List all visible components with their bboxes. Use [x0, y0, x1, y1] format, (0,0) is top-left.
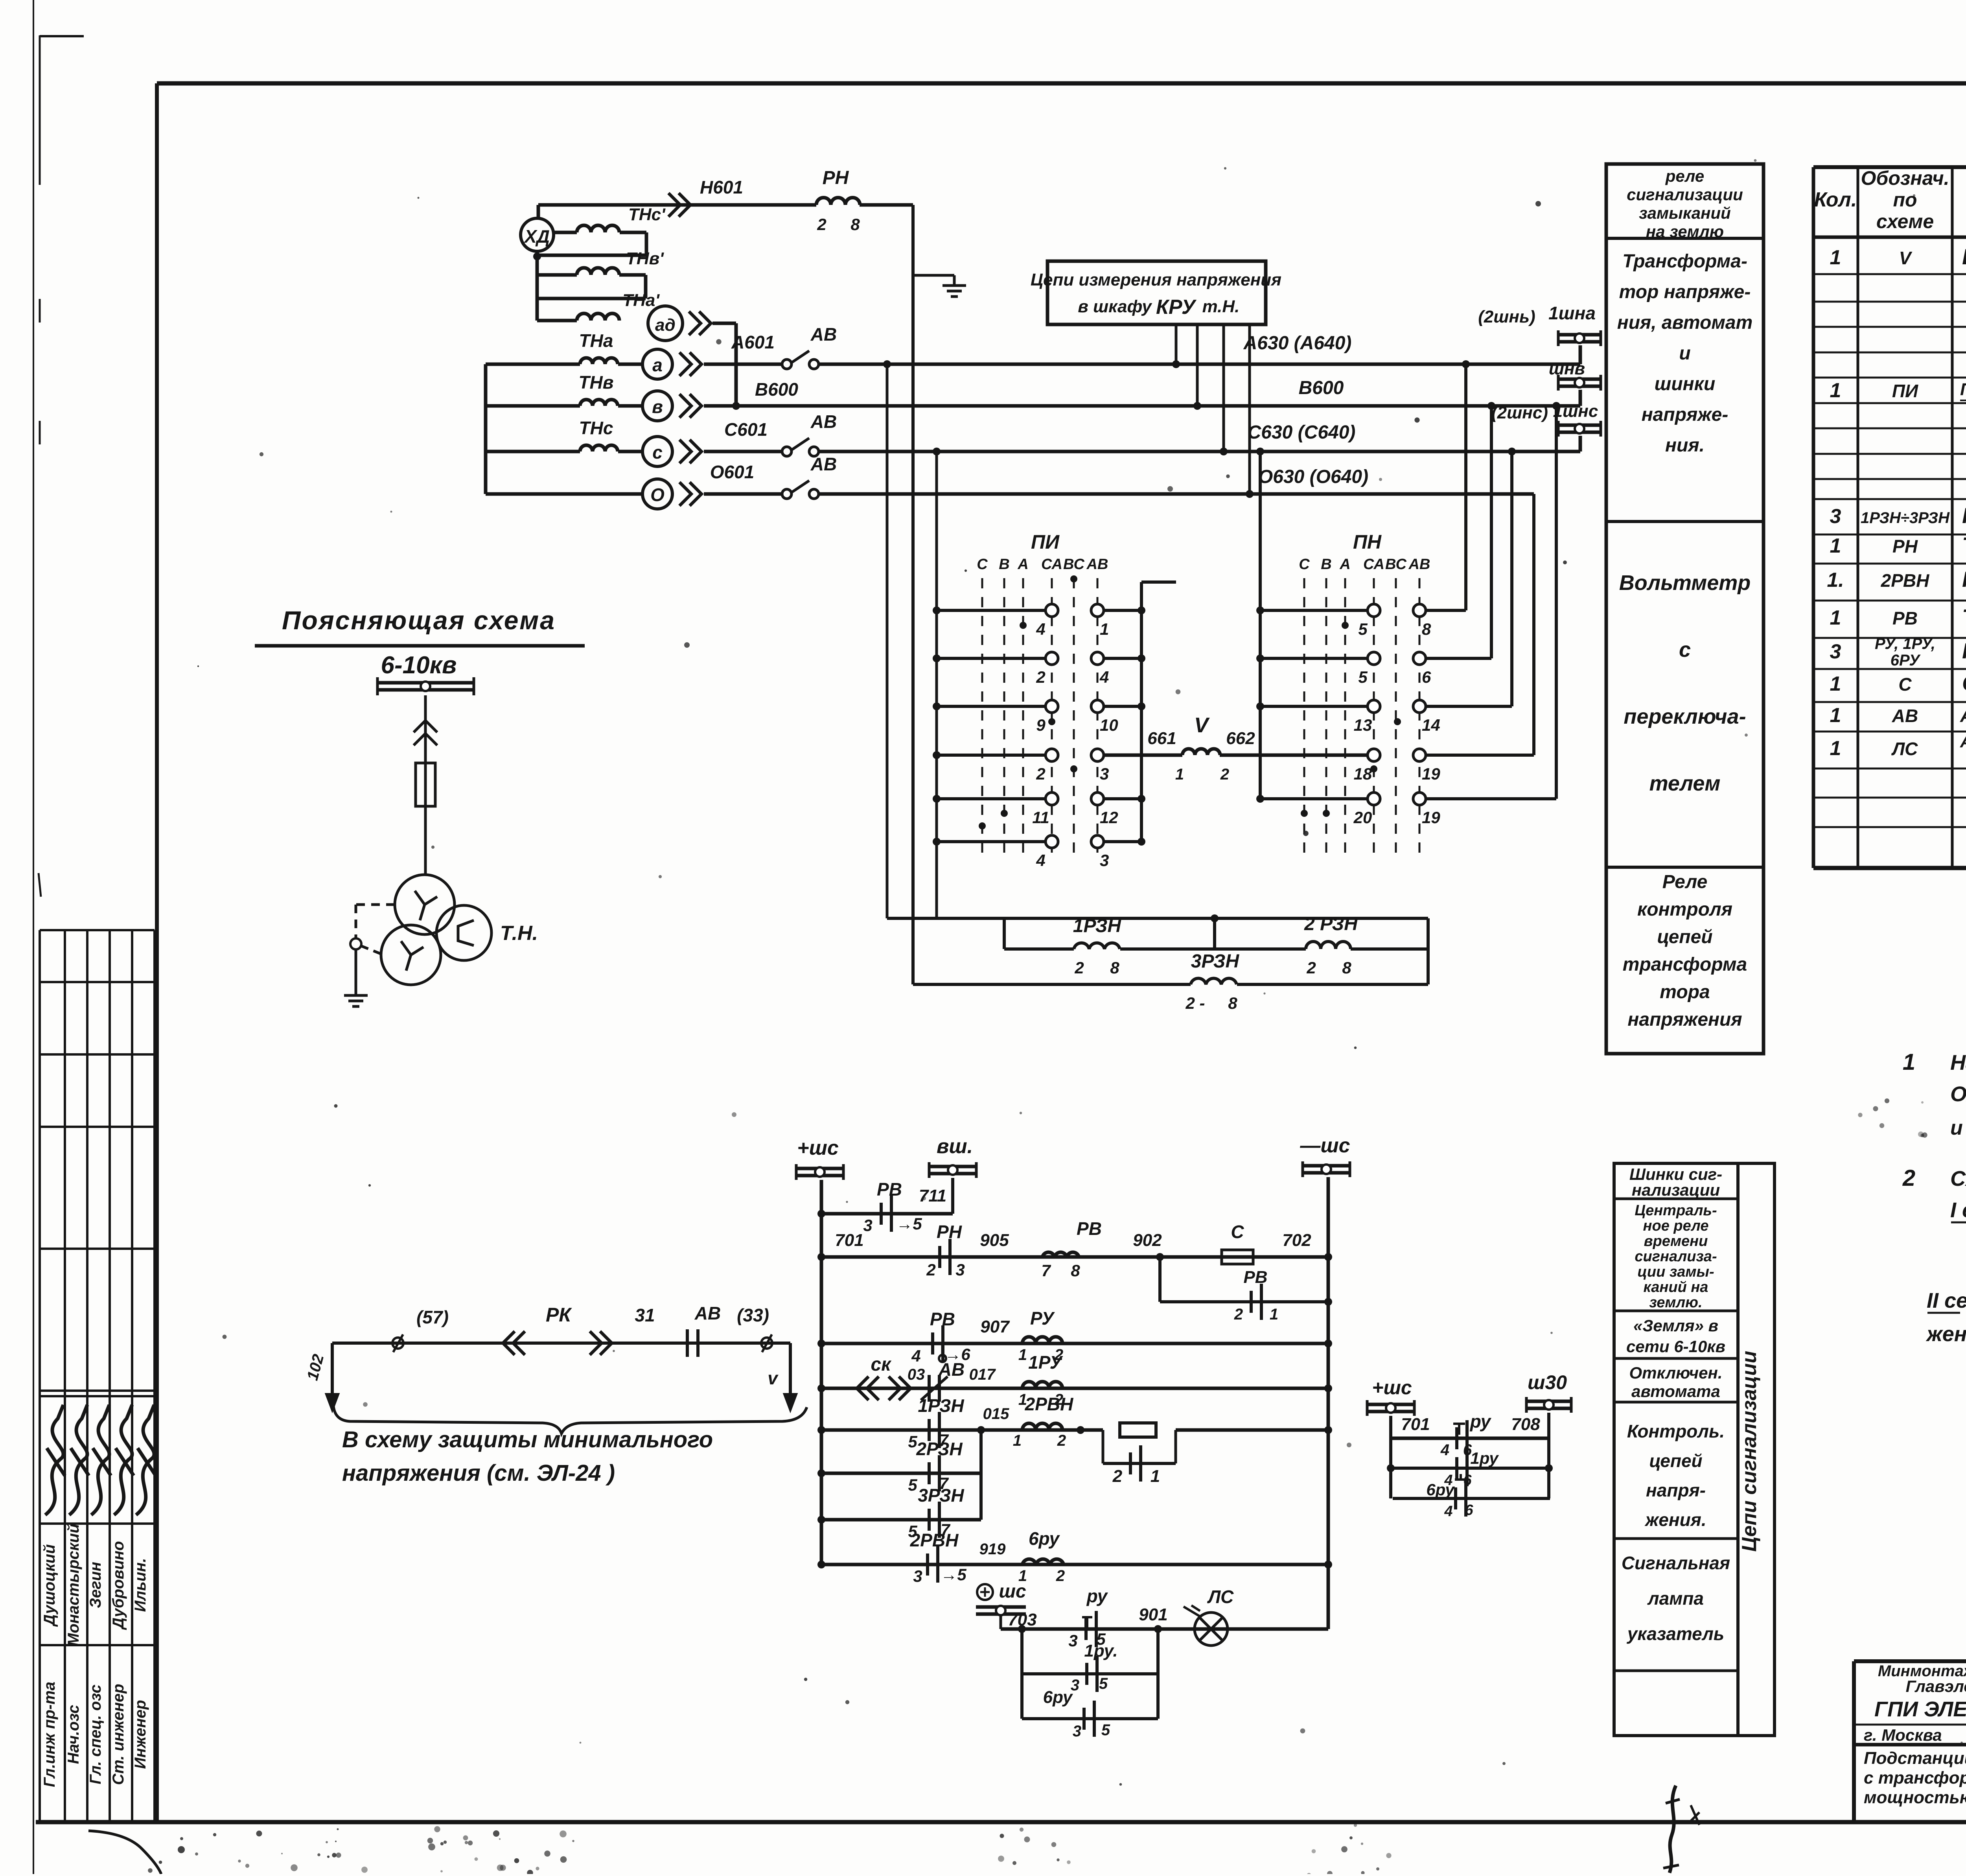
svg-text:3: 3 [1830, 505, 1841, 528]
svg-text:Зегин: Зегин [87, 1562, 104, 1608]
svg-text:1РУ: 1РУ [1028, 1352, 1064, 1373]
svg-text:Отключен.: Отключен. [1629, 1364, 1722, 1382]
svg-text:→5: →5 [941, 1565, 966, 1584]
svg-text:РВ: РВ [1892, 608, 1918, 628]
svg-text:Ст. инженер: Ст. инженер [110, 1684, 127, 1785]
svg-text:2: 2 [1306, 958, 1316, 977]
svg-text:цепей: цепей [1657, 927, 1712, 947]
svg-text:сигнализа-: сигнализа- [1635, 1248, 1717, 1265]
svg-text:2: 2 [1074, 958, 1084, 977]
svg-text:1: 1 [1830, 704, 1841, 727]
svg-text:—шс: —шс [1300, 1134, 1350, 1157]
svg-text:землю.: землю. [1649, 1294, 1702, 1311]
svg-text:ТНв': ТНв' [626, 249, 664, 268]
svg-text:Монастырский: Монастырский [65, 1524, 82, 1646]
svg-text:Дубровино: Дубровино [110, 1541, 127, 1630]
svg-text:901: 901 [1139, 1605, 1167, 1624]
svg-text:Нач.озс: Нач.озс [65, 1705, 82, 1764]
svg-text:АВ: АВ [810, 324, 837, 345]
svg-text:ш30: ш30 [1528, 1371, 1567, 1393]
svg-text:АВ: АВ [1408, 556, 1430, 573]
svg-text:8: 8 [1228, 994, 1237, 1012]
svg-text:V: V [1194, 713, 1210, 737]
svg-text:Реле: Реле [1662, 872, 1708, 892]
svg-text:В600: В600 [755, 379, 798, 400]
svg-text:Контроль.: Контроль. [1627, 1421, 1725, 1441]
svg-text:ЛС: ЛС [1207, 1587, 1234, 1607]
svg-text:Инженер: Инженер [132, 1700, 149, 1769]
svg-text:8: 8 [1422, 620, 1431, 638]
svg-text:3: 3 [1073, 1723, 1081, 1740]
svg-text:РВ: РВ [1243, 1268, 1267, 1287]
svg-text:шс: шс [999, 1581, 1026, 1602]
svg-text:напряжения (см. ЭЛ-24 ): напряжения (см. ЭЛ-24 ) [342, 1460, 615, 1486]
svg-text:вш.: вш. [937, 1135, 973, 1158]
svg-text:цепей: цепей [1649, 1450, 1702, 1471]
svg-text:14: 14 [1422, 716, 1440, 734]
svg-text:v: v [768, 1368, 779, 1388]
svg-text:ции замы-: ции замы- [1637, 1264, 1714, 1280]
svg-text:V: V [1899, 248, 1913, 268]
svg-text:1: 1 [1100, 620, 1109, 638]
svg-text:О601: О601 [710, 462, 755, 482]
svg-text:А: А [1017, 556, 1028, 573]
svg-text:ОЯХ 364 1011 ВИТа: ОЯХ 364 1011 ВИТа [1950, 1082, 1966, 1106]
svg-text:с: с [1679, 638, 1691, 662]
svg-text:Схема выполнена для трансфо: Схема выполнена для трансформатора напря… [1950, 1167, 1966, 1190]
svg-text:Кол.: Кол. [1814, 188, 1857, 211]
svg-text:напря-: напря- [1646, 1480, 1706, 1500]
svg-text:ад: ад [655, 315, 676, 335]
svg-text:2: 2 [1220, 766, 1229, 783]
svg-text:1: 1 [1175, 766, 1184, 783]
svg-text:1: 1 [1830, 246, 1841, 269]
svg-text:С630 (С640): С630 (С640) [1248, 422, 1356, 443]
svg-text:жения.: жения. [1644, 1509, 1706, 1530]
svg-text:4: 4 [1036, 620, 1045, 638]
svg-text:(33): (33) [737, 1305, 769, 1325]
svg-text:2: 2 [1902, 1165, 1915, 1191]
svg-text:Арматура сигнальной лампы: Арматура сигнальной лампы [1960, 732, 1966, 751]
svg-text:напряжения: напряжения [1627, 1009, 1742, 1030]
svg-text:1: 1 [1830, 534, 1841, 557]
svg-text:ру: ру [1086, 1586, 1108, 1606]
svg-text:О630 (О640): О630 (О640) [1258, 466, 1368, 487]
svg-text:телем: телем [1649, 772, 1721, 795]
svg-text:ния.: ния. [1665, 435, 1705, 456]
svg-text:702: 702 [1282, 1231, 1311, 1250]
svg-text:7: 7 [1041, 1261, 1051, 1280]
svg-text:АВ: АВ [694, 1303, 721, 1323]
svg-text:с: с [652, 442, 663, 463]
svg-text:т.Н.: т.Н. [1202, 297, 1240, 316]
svg-text:1: 1 [1013, 1432, 1022, 1449]
svg-text:РУ, 1РУ,: РУ, 1РУ, [1875, 635, 1935, 652]
svg-text:20: 20 [1353, 808, 1372, 827]
svg-text:Сопротивление: Сопротивление [1962, 671, 1966, 695]
svg-text:2: 2 [1112, 1467, 1123, 1486]
svg-text:на землю: на землю [1646, 222, 1724, 241]
svg-text:905: 905 [980, 1231, 1009, 1250]
svg-text:2: 2 [1234, 1306, 1243, 1323]
svg-text:С: С [1299, 556, 1310, 573]
svg-text:А601: А601 [731, 332, 775, 352]
svg-text:в: в [652, 396, 663, 417]
svg-text:и чертежа института Энергос: и чертежа института Энергосетьпроект N18… [1950, 1117, 1966, 1139]
svg-text:3: 3 [1068, 1631, 1077, 1650]
svg-text:4: 4 [911, 1347, 920, 1365]
svg-text:5: 5 [1101, 1721, 1110, 1739]
svg-text:1: 1 [1270, 1306, 1278, 1323]
svg-text:Сигнальная: Сигнальная [1622, 1553, 1730, 1573]
svg-text:С: С [1231, 1222, 1244, 1242]
svg-text:10: 10 [1100, 716, 1118, 734]
svg-text:Цепи сигнализации: Цепи сигнализации [1738, 1351, 1761, 1552]
svg-text:907: 907 [980, 1317, 1010, 1336]
svg-text:1: 1 [1830, 673, 1841, 695]
svg-text:ру: ру [1469, 1411, 1492, 1432]
svg-text:РВ: РВ [1077, 1218, 1102, 1239]
svg-text:2РВН: 2РВН [910, 1530, 959, 1550]
svg-text:701: 701 [835, 1231, 863, 1250]
svg-text:13: 13 [1354, 716, 1372, 734]
svg-text:В схему защиты минимального: В схему защиты минимального [342, 1427, 713, 1452]
svg-text:2РВН: 2РВН [1881, 570, 1929, 591]
svg-text:Автоматический выключатель: Автоматический выключатель [1960, 705, 1966, 726]
svg-text:ЛС: ЛС [1891, 739, 1918, 759]
svg-text:АВ: АВ [938, 1359, 965, 1380]
svg-text:АВ: АВ [1892, 706, 1918, 726]
svg-text:3: 3 [1100, 851, 1109, 870]
svg-text:«Земля» в: «Земля» в [1633, 1316, 1718, 1335]
svg-text:по: по [1893, 189, 1917, 211]
svg-text:в шкафу: в шкафу [1078, 297, 1152, 316]
svg-text:2 -: 2 - [1185, 994, 1205, 1012]
svg-text:6: 6 [1465, 1502, 1473, 1518]
svg-text:919: 919 [979, 1541, 1006, 1558]
svg-text:ное реле: ное реле [1643, 1218, 1709, 1234]
svg-text:6РУ: 6РУ [1891, 652, 1921, 669]
svg-text:3: 3 [1830, 640, 1841, 663]
svg-text:ния, автомат: ния, автомат [1617, 312, 1753, 333]
svg-text:2: 2 [1056, 1567, 1065, 1585]
svg-text:8: 8 [850, 215, 860, 234]
svg-text:1РЗН÷3РЗН: 1РЗН÷3РЗН [1861, 509, 1950, 527]
svg-text:РК: РК [546, 1304, 572, 1326]
svg-text:СА: СА [1041, 556, 1062, 573]
svg-text:1ру: 1ру [1470, 1449, 1499, 1467]
svg-text:5: 5 [1358, 620, 1368, 638]
svg-text:8: 8 [1342, 958, 1351, 977]
svg-text:ск: ск [871, 1354, 892, 1375]
svg-text:+шс: +шс [1372, 1377, 1412, 1399]
svg-text:Вольтметр: Вольтметр [1962, 244, 1966, 269]
svg-text:ТНс: ТНс [579, 418, 613, 438]
svg-text:ПИ: ПИ [1031, 531, 1060, 553]
svg-text:А630 (А640): А630 (А640) [1243, 333, 1352, 354]
svg-text:1шна: 1шна [1548, 303, 1596, 323]
svg-text:I секции шин 6-10кв и дей: I секции шин 6-10кв и действительна [1950, 1198, 1966, 1222]
svg-text:указатель: указатель [1627, 1624, 1724, 1644]
svg-text:12: 12 [1100, 808, 1118, 827]
svg-text:Централь-: Централь- [1635, 1202, 1717, 1219]
svg-text:ТНс': ТНс' [628, 205, 666, 224]
svg-text:каний на: каний на [1644, 1279, 1708, 1296]
svg-text:1РЗН: 1РЗН [918, 1395, 964, 1416]
svg-text:017: 017 [969, 1366, 996, 1383]
svg-text:6-10кв: 6-10кв [381, 652, 457, 679]
svg-text:ТНв: ТНв [578, 372, 613, 393]
svg-text:РН: РН [823, 168, 849, 188]
svg-text:ГПИ ЭЛЕКТРОПРОЕКТ.: ГПИ ЭЛЕКТРОПРОЕКТ. [1874, 1697, 1966, 1721]
svg-text:и: и [1679, 343, 1690, 364]
svg-text:трансформа: трансформа [1623, 954, 1747, 975]
svg-text:31: 31 [635, 1305, 655, 1325]
svg-text:701: 701 [1401, 1415, 1430, 1434]
svg-text:СА: СА [1363, 556, 1384, 573]
svg-text:4: 4 [1099, 668, 1109, 686]
svg-text:(2шнь): (2шнь) [1478, 307, 1535, 326]
svg-text:А: А [1339, 556, 1350, 573]
svg-text:ТНа: ТНа [579, 330, 613, 351]
svg-text:3: 3 [913, 1567, 922, 1585]
svg-text:ПН: ПН [1353, 531, 1382, 553]
svg-text:2: 2 [926, 1260, 935, 1279]
svg-text:Реле времени: Реле времени [1962, 567, 1966, 592]
svg-text:напряже-: напряже- [1642, 404, 1729, 425]
svg-text:Поясняющая схема: Поясняющая схема [282, 606, 556, 635]
svg-text:жения на указанную в скобк: жения на указанную в скобках. [1926, 1322, 1966, 1346]
svg-text:АВ: АВ [810, 454, 837, 474]
svg-text:19: 19 [1422, 765, 1440, 783]
svg-text:Ильин.: Ильин. [132, 1558, 149, 1612]
svg-text:18: 18 [1354, 765, 1372, 783]
svg-text:С601: С601 [724, 419, 768, 440]
svg-text:Гл.инж пр-та: Гл.инж пр-та [41, 1682, 58, 1787]
svg-text:2: 2 [1057, 1432, 1066, 1449]
svg-text:8: 8 [1071, 1261, 1080, 1280]
svg-text:С: С [977, 556, 988, 573]
svg-text:ТНа': ТНа' [622, 291, 660, 310]
svg-text:708: 708 [1511, 1415, 1540, 1434]
svg-text:5: 5 [1099, 1675, 1108, 1692]
svg-text:Гл. спец. озс: Гл. спец. озс [87, 1684, 104, 1784]
svg-text:3: 3 [955, 1260, 965, 1279]
svg-text:АВ: АВ [1086, 556, 1108, 573]
svg-text:Обознач.: Обознач. [1861, 167, 1949, 189]
svg-text:Душоцкий: Душоцкий [41, 1544, 58, 1627]
svg-text:РН: РН [937, 1222, 962, 1242]
svg-text:2: 2 [1036, 668, 1045, 686]
svg-text:замыканий: замыканий [1639, 204, 1731, 222]
svg-text:2 РЗН: 2 РЗН [1304, 914, 1358, 934]
svg-text:1: 1 [1830, 606, 1841, 629]
svg-text:РВ: РВ [877, 1179, 902, 1200]
svg-text:ВС: ВС [1385, 556, 1406, 573]
svg-text:нализации: нализации [1632, 1181, 1720, 1199]
svg-text:03: 03 [908, 1366, 925, 1383]
svg-text:Т.Н.: Т.Н. [500, 922, 538, 945]
svg-text:Настоящий чертеж выполнен н: Настоящий чертеж выполнен на основании с… [1950, 1051, 1966, 1074]
svg-text:РН: РН [1892, 536, 1918, 557]
svg-text:РВ: РВ [930, 1309, 955, 1329]
svg-text:8: 8 [1110, 958, 1119, 977]
svg-text:Подстанции 110/6-10кв: Подстанции 110/6-10кв [1864, 1749, 1966, 1768]
svg-text:6ру: 6ру [1029, 1528, 1060, 1549]
svg-text:5: 5 [908, 1476, 917, 1494]
svg-text:4: 4 [1444, 1503, 1452, 1520]
svg-text:11: 11 [1032, 808, 1049, 827]
svg-text:1.: 1. [1827, 569, 1844, 592]
svg-text:Реле напряжения: Реле напряжения [1962, 503, 1966, 528]
svg-text:(2шнс): (2шнс) [1491, 403, 1548, 422]
svg-text:В: В [1321, 556, 1331, 573]
svg-text:→5: →5 [896, 1214, 922, 1233]
svg-text:времени: времени [1644, 1233, 1708, 1249]
svg-text:5: 5 [1358, 668, 1368, 686]
svg-text:тор напряже-: тор напряже- [1619, 282, 1751, 302]
svg-text:реле: реле [1665, 167, 1704, 185]
svg-text:контроля: контроля [1637, 899, 1732, 920]
svg-text:6ру: 6ру [1043, 1688, 1073, 1707]
svg-text:662: 662 [1226, 729, 1255, 748]
svg-text:ПИ: ПИ [1892, 381, 1918, 401]
svg-text:То же: То же [1962, 604, 1966, 629]
svg-text:сигнализации: сигнализации [1627, 185, 1743, 204]
svg-text:Главэлектромонтаж: Главэлектромонтаж [1906, 1677, 1966, 1695]
svg-text:1: 1 [1830, 737, 1841, 760]
svg-text:В: В [999, 556, 1009, 573]
svg-text:тора: тора [1660, 982, 1710, 1002]
svg-text:шинки: шинки [1655, 374, 1716, 394]
svg-text:3РЗН: 3РЗН [918, 1485, 964, 1506]
svg-text:1: 1 [1830, 379, 1841, 402]
svg-text:2РВН: 2РВН [1025, 1394, 1073, 1414]
svg-text:Вольтметр: Вольтметр [1619, 571, 1751, 595]
svg-text:(57): (57) [416, 1307, 449, 1327]
svg-text:Переключатель малогабаритный: Переключатель малогабаритный [1960, 380, 1966, 399]
svg-text:а: а [652, 355, 663, 375]
svg-text:Трансформа-: Трансформа- [1622, 251, 1747, 272]
svg-text:с трансформаторами: с трансформаторами [1864, 1768, 1966, 1788]
svg-text:Реле указательное: Реле указательное [1962, 638, 1966, 663]
svg-text:661: 661 [1147, 729, 1176, 748]
svg-text:ХД: ХД [523, 226, 550, 247]
svg-text:сети 6-10кв: сети 6-10кв [1626, 1337, 1725, 1356]
svg-text:711: 711 [919, 1186, 946, 1205]
svg-text:АВ: АВ [810, 411, 837, 432]
svg-text:ВС: ВС [1063, 556, 1084, 573]
svg-text:мощностью от 6,3 до 25 мв: мощностью от 6,3 до 25 мв [1864, 1788, 1966, 1807]
svg-text:6ру: 6ру [1426, 1480, 1455, 1499]
svg-text:3РЗН: 3РЗН [1191, 951, 1240, 972]
svg-text:1ру.: 1ру. [1084, 1641, 1117, 1660]
svg-text:2РЗН: 2РЗН [916, 1439, 963, 1459]
svg-text:015: 015 [983, 1405, 1009, 1423]
svg-text:9: 9 [1036, 716, 1046, 734]
svg-text:1РЗН: 1РЗН [1073, 916, 1122, 936]
svg-text:То же: То же [1962, 533, 1966, 557]
svg-text:II секции с изменением мар: II секции с изменением маркировки шинок … [1927, 1289, 1966, 1312]
svg-text:+шс: +шс [797, 1137, 839, 1159]
svg-text:1: 1 [1151, 1467, 1160, 1486]
svg-text:Н601: Н601 [700, 177, 743, 197]
svg-text:В600: В600 [1299, 378, 1344, 398]
svg-text:Цепи измерения напряжения: Цепи измерения напряжения [1031, 270, 1281, 289]
svg-text:С: С [1898, 674, 1912, 695]
svg-text:1: 1 [1018, 1346, 1027, 1364]
svg-text:4: 4 [1036, 851, 1045, 870]
svg-text:2: 2 [1036, 765, 1045, 783]
svg-text:лампа: лампа [1647, 1588, 1704, 1609]
svg-text:О: О [650, 485, 665, 505]
svg-text:автомата: автомата [1631, 1382, 1720, 1401]
svg-text:схеме: схеме [1876, 210, 1934, 232]
svg-text:2: 2 [817, 215, 826, 234]
svg-text:6: 6 [1422, 668, 1431, 686]
svg-text:3: 3 [863, 1216, 872, 1235]
svg-text:19: 19 [1422, 808, 1440, 827]
svg-text:3: 3 [1100, 765, 1109, 783]
svg-text:4: 4 [1440, 1441, 1449, 1459]
svg-text:г. Москва: г. Москва [1864, 1726, 1942, 1744]
svg-text:переключа-: переключа- [1624, 705, 1746, 728]
svg-text:РУ: РУ [1030, 1308, 1055, 1329]
svg-text:902: 902 [1133, 1231, 1162, 1250]
svg-text:1: 1 [1903, 1049, 1915, 1075]
svg-text:КРУ: КРУ [1156, 296, 1197, 319]
svg-text:шнв: шнв [1549, 359, 1585, 378]
